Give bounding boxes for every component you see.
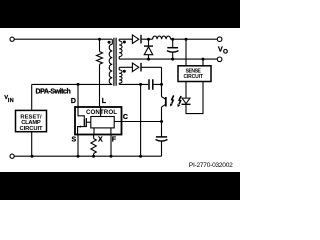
svg-text:CONTROL: CONTROL	[86, 109, 117, 116]
svg-text:S: S	[72, 136, 77, 143]
svg-text:F: F	[112, 136, 117, 143]
svg-text:IN: IN	[8, 98, 14, 104]
svg-text:PI-2770-032002: PI-2770-032002	[189, 162, 233, 169]
svg-text:O: O	[223, 49, 228, 56]
svg-text:X: X	[98, 136, 103, 143]
svg-text:DPA-Switch: DPA-Switch	[36, 88, 71, 95]
svg-text:C: C	[123, 114, 128, 121]
svg-text:CIRCUIT: CIRCUIT	[183, 74, 203, 80]
svg-text:CIRCUIT: CIRCUIT	[19, 126, 43, 132]
svg-text:D: D	[71, 98, 76, 105]
svg-text:L: L	[102, 98, 107, 105]
